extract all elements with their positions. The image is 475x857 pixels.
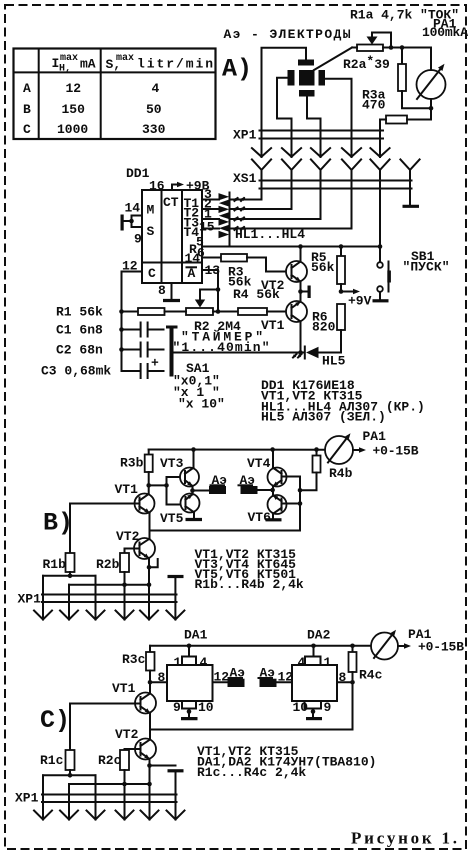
node: VT3/VT5 emitter junction bbox=[190, 488, 195, 493]
connector XP1 strip (B) bbox=[42, 594, 177, 596]
wire: base drive vertical and return line bbox=[150, 477, 301, 531]
svg-text:VT2: VT2 bbox=[261, 278, 285, 293]
transistor VT4 (mirrored) bbox=[268, 450, 301, 491]
svg-text:R2b: R2b bbox=[96, 557, 120, 572]
svg-text:VT1: VT1 bbox=[112, 681, 136, 696]
svg-text:max: max bbox=[60, 53, 78, 64]
svg-text:VT4: VT4 bbox=[247, 456, 271, 471]
svg-text:Аэ - ЭЛЕКТРОДЫ: Аэ - ЭЛЕКТРОДЫ bbox=[224, 27, 351, 42]
node: meter bottom junction bbox=[429, 106, 434, 111]
node: base tie junction bbox=[164, 483, 169, 488]
transistor VT1 (section A) bbox=[286, 292, 307, 353]
wire: electrode right plate to XP1 pin4 column bbox=[325, 79, 352, 157]
svg-text:+: + bbox=[151, 356, 159, 371]
svg-text:mA: mA bbox=[80, 57, 96, 72]
wire: M and S inputs tied to contact bar bbox=[132, 216, 143, 228]
svg-text:VT6: VT6 bbox=[248, 510, 272, 525]
svg-text:max: max bbox=[116, 53, 134, 64]
transistor VT2 (section A) bbox=[286, 247, 307, 292]
ground bar under SB1 bbox=[373, 299, 389, 302]
node: VT4 collector on rail bbox=[270, 447, 275, 452]
IC DA2 К174УН7 body bbox=[292, 665, 337, 701]
wire: R3b node to VT3/VT5 base tie bbox=[149, 484, 167, 486]
wire: pin row A (C section) bbox=[43, 774, 96, 776]
connector XP1 strip (two lines) bbox=[260, 130, 384, 132]
svg-text:А): А) bbox=[222, 55, 252, 84]
svg-text:C3 0,68mk: C3 0,68mk bbox=[41, 364, 111, 379]
svg-text:VT2: VT2 bbox=[115, 727, 139, 742]
node: R3c / DA1 pin8 / VT1c junction bbox=[148, 680, 153, 685]
electrode Аэ (C right) bbox=[259, 666, 277, 688]
resistor R1c bbox=[66, 750, 75, 775]
svg-text:1: 1 bbox=[324, 655, 332, 670]
svg-text:R2c: R2c bbox=[98, 753, 122, 768]
DA2 pins 10,9 with ground bbox=[293, 700, 332, 719]
svg-text:14: 14 bbox=[125, 201, 141, 216]
node: emitter column junction bbox=[147, 582, 152, 587]
svg-text:M: M bbox=[147, 203, 155, 218]
XS1 socket forks bbox=[252, 159, 420, 170]
wire: electrode top bar to XP1 pin1 column bbox=[262, 48, 307, 157]
wire: emitter down to pin row B bbox=[148, 567, 150, 584]
svg-text:4: 4 bbox=[298, 655, 306, 670]
node: VT4 base / R4b junction bbox=[298, 488, 303, 493]
svg-text:150: 150 bbox=[62, 102, 86, 117]
svg-text:4: 4 bbox=[152, 81, 160, 96]
wire: electrode to R1a wiper end (diagonal) bbox=[314, 48, 352, 71]
meter PA1 (section A) bbox=[417, 48, 447, 109]
resistor R1b bbox=[66, 553, 75, 576]
meter PA1 (section C) bbox=[371, 628, 411, 659]
svg-text:R1c...R4c 2,4k: R1c...R4c 2,4k bbox=[197, 765, 306, 780]
node: C1 junction bbox=[119, 327, 124, 332]
svg-text:DA1: DA1 bbox=[184, 628, 208, 643]
resistor R4 56k bbox=[238, 308, 292, 315]
potentiometer R1a bbox=[352, 33, 431, 52]
wire: electrode left plate to XP1 pin2 column bbox=[277, 78, 292, 157]
wire: electrode bottom bar to XP1 pin3 column bbox=[307, 97, 321, 158]
svg-text:VT2: VT2 bbox=[116, 529, 140, 544]
wire: VT2c base to R2c bbox=[125, 749, 141, 750]
node: VT2 emitter / VT1 junction bbox=[298, 289, 303, 294]
LED light arrows HL1..HL4 bbox=[235, 198, 245, 230]
resistor R3b bbox=[145, 450, 153, 486]
svg-text:+9V: +9V bbox=[348, 294, 372, 309]
wire: pin 5 line bbox=[202, 246, 380, 248]
wire: pin row A (R1b to pins 1,3) bbox=[43, 575, 96, 577]
node: emitter column junction (C) bbox=[147, 782, 152, 787]
XP1 (C) pin arrowheads bbox=[34, 811, 185, 820]
node: R2 right lead junction bbox=[216, 309, 221, 314]
contact bar at pins 14/9 bbox=[121, 215, 124, 231]
node: VT2 collector on pin5 line bbox=[298, 244, 303, 249]
resistor R1 56k bbox=[122, 308, 187, 315]
resistor R4b bbox=[300, 450, 321, 491]
wire: socket4 stem to HL row4 bbox=[230, 170, 352, 229]
svg-text:Рисунок 1.: Рисунок 1. bbox=[351, 829, 457, 848]
DA1 pin 8 bbox=[150, 670, 167, 685]
svg-text:4: 4 bbox=[200, 655, 208, 670]
node: +9V tap junction bbox=[339, 289, 344, 294]
transistor VT3 bbox=[180, 450, 199, 491]
IC DD1 К176ИЕ18 body bbox=[142, 190, 202, 283]
resistor R3a 470 bbox=[398, 48, 431, 109]
svg-text:CT: CT bbox=[163, 195, 179, 210]
svg-text:VT1: VT1 bbox=[261, 318, 285, 333]
table: load classes A/B/C bbox=[14, 49, 216, 140]
wire: emitter node to ground stem bbox=[150, 765, 176, 767]
DA2 pin 12 input bbox=[277, 670, 294, 685]
connector XS1 strip (two lines) bbox=[260, 180, 412, 182]
push button SB1 "ПУСК" bbox=[377, 247, 391, 300]
svg-text:470: 470 bbox=[362, 98, 386, 113]
wire: socket2 stem to HL row2 bbox=[230, 170, 292, 209]
transistor VT1 (section C) bbox=[135, 693, 156, 743]
electrode Аэ (C left) bbox=[228, 666, 246, 688]
resistor R6 820 bbox=[319, 304, 346, 353]
pin stubs T1..T4 to LEDs bbox=[202, 200, 219, 229]
node: C2 junction bbox=[119, 347, 124, 352]
svg-text:1: 1 bbox=[174, 655, 182, 670]
capacitor C1 6n8 bbox=[122, 323, 164, 337]
electrode Аэ (B right) bbox=[239, 473, 258, 494]
wire: socket5 stem down to SB1 bbox=[379, 170, 381, 247]
transistor VT6 (mirrored) bbox=[268, 490, 301, 518]
svg-text:B: B bbox=[23, 102, 31, 117]
wire: VT3/VT5 base tie vertical bbox=[167, 477, 186, 505]
transistor VT2 (section C) bbox=[135, 739, 156, 766]
XP1 plug pin arrowheads bbox=[252, 148, 390, 157]
node: VT1 emitter on timer line bbox=[298, 350, 303, 355]
wire: VT1c/VT2c node return line to R4c bbox=[150, 682, 353, 729]
node: VT2b emitter junction bbox=[147, 565, 152, 570]
svg-text:VT1: VT1 bbox=[115, 482, 139, 497]
node: R3a top junction bbox=[400, 45, 405, 50]
LED HL5 bbox=[305, 347, 341, 359]
potentiometer R2 2М4 bbox=[186, 290, 238, 316]
resistor R2a bbox=[380, 108, 431, 157]
DA1 supply pins 1,4 bbox=[174, 646, 208, 670]
svg-text:9: 9 bbox=[173, 700, 181, 715]
wire: emitter stub bbox=[149, 559, 158, 567]
ground bar (B pin 6) bbox=[168, 575, 184, 578]
wire: pin 13 down to R2 right end bbox=[202, 270, 218, 312]
svg-text:S: S bbox=[147, 224, 155, 239]
svg-text:XS1: XS1 bbox=[233, 171, 257, 186]
svg-text:HL5: HL5 bbox=[322, 354, 346, 369]
DA2 pin 8 bbox=[337, 670, 353, 685]
svg-text:DD1: DD1 bbox=[126, 166, 150, 181]
svg-text:8: 8 bbox=[158, 283, 166, 298]
svg-text:100mkA: 100mkA bbox=[422, 25, 468, 40]
node: R5 top on pin5 line bbox=[339, 244, 344, 249]
capacitor C3 0,68mk (polarized) bbox=[122, 356, 164, 379]
svg-text:C: C bbox=[23, 122, 31, 137]
resistor R5 56k bbox=[337, 247, 345, 292]
svg-text:HL5 АЛ307 (ЗЕЛ.): HL5 АЛ307 (ЗЕЛ.) bbox=[261, 410, 386, 425]
IC DA1 К174УН7 body bbox=[167, 665, 213, 701]
ground bar under VT5 bbox=[186, 518, 203, 521]
node: R2c bottom junction bbox=[122, 782, 127, 787]
resistor R2c bbox=[120, 750, 129, 784]
pin 16 +9В supply arrow bbox=[172, 182, 184, 190]
capacitor C2 68n bbox=[122, 343, 164, 357]
electrode transducer Аэ (section A) bbox=[288, 60, 326, 97]
transistor VT1 (section B) bbox=[135, 485, 155, 542]
svg-text:VT5: VT5 bbox=[160, 511, 184, 526]
svg-text:1000: 1000 bbox=[57, 122, 88, 137]
node: R4c top on rail bbox=[350, 644, 355, 649]
wire: socket1 stem to HL row1 bbox=[230, 170, 262, 200]
node: VT3 collector on rail bbox=[191, 447, 196, 452]
wire: VT1b base to R1b bbox=[70, 504, 140, 554]
svg-text:A: A bbox=[23, 81, 31, 96]
svg-text:330: 330 bbox=[142, 122, 166, 137]
resistor R3 56k bbox=[221, 254, 292, 272]
svg-text:DA2: DA2 bbox=[307, 628, 331, 643]
wire: section B supply rail bbox=[149, 449, 326, 451]
wire: emitter down to pin row B (C) bbox=[149, 766, 151, 785]
node: R2b bottom junction bbox=[122, 582, 127, 587]
svg-text:C1 6n8: C1 6n8 bbox=[56, 323, 103, 338]
node: R1c bottom junction bbox=[68, 773, 73, 778]
svg-text:H,: H, bbox=[59, 64, 71, 75]
pin 8 stub with end bar bbox=[163, 283, 180, 301]
wire: pin 12 to timing network bbox=[122, 272, 143, 372]
XP1 (B) pin stems bbox=[43, 576, 175, 620]
ground bar (C pin 6) bbox=[168, 769, 184, 772]
wire: VT2b base to R2b bbox=[125, 549, 140, 554]
wire: section C supply rail bbox=[150, 645, 371, 647]
node: R4c / DA2 pin8 junction bbox=[350, 680, 355, 685]
svg-text:R1b...R4b 2,4k: R1b...R4b 2,4k bbox=[195, 577, 304, 592]
DA1 pins 9,10 with ground bbox=[173, 700, 214, 719]
svg-text:56k: 56k bbox=[311, 260, 335, 275]
svg-text:XP1: XP1 bbox=[18, 592, 42, 607]
svg-text:XP1: XP1 bbox=[233, 128, 257, 143]
wire: VT1c base to R1c bbox=[70, 704, 141, 751]
node: DA2 supply tap on rail bbox=[311, 644, 316, 649]
ground bar under VT6 bbox=[266, 518, 282, 521]
electrode Аэ (B left) bbox=[209, 473, 227, 494]
node: R1a right end junction bbox=[389, 45, 394, 50]
node: VT6 base junction bbox=[298, 501, 303, 506]
svg-text:R1c: R1c bbox=[40, 753, 64, 768]
svg-text:R3b: R3b bbox=[120, 456, 144, 471]
node: DA1 supply tap on rail bbox=[187, 644, 192, 649]
svg-text:10: 10 bbox=[293, 700, 309, 715]
svg-text:"х 10": "х 10" bbox=[178, 397, 225, 412]
resistor R2b bbox=[120, 553, 129, 585]
svg-text:R1b: R1b bbox=[43, 557, 67, 572]
svg-text:820: 820 bbox=[312, 320, 336, 335]
contact bar right of VT1/VT2 node bbox=[301, 286, 311, 299]
switch SA1 common bar bbox=[166, 326, 178, 377]
svg-text:R3c: R3c bbox=[122, 652, 146, 667]
svg-text:"ПУСК": "ПУСК" bbox=[403, 260, 450, 275]
svg-text:VT3: VT3 bbox=[160, 456, 184, 471]
svg-text:9: 9 bbox=[324, 700, 332, 715]
svg-text:9: 9 bbox=[134, 232, 142, 247]
node: R2 wiper tie junction bbox=[216, 287, 221, 292]
svg-text:50: 50 bbox=[146, 102, 162, 117]
wire: socket6 stem to ground bbox=[409, 170, 411, 205]
svg-text:C: C bbox=[148, 266, 156, 281]
svg-text:С): С) bbox=[40, 706, 70, 735]
wire: pin row B (C section) bbox=[69, 783, 150, 785]
resistor R3c bbox=[146, 646, 155, 693]
node: VT1b collector / R3b junction bbox=[146, 483, 151, 488]
wire: timer output line to HL5 / R6 bbox=[174, 352, 305, 354]
resistor R4c bbox=[349, 646, 357, 683]
svg-text:R4b: R4b bbox=[329, 466, 353, 481]
node: VT4/VT6 emitter junction bbox=[270, 488, 275, 493]
node: R1b bottom junction bbox=[68, 574, 73, 579]
transistor VT5 bbox=[181, 491, 200, 518]
XP1 (B) pin arrowheads bbox=[34, 611, 184, 620]
svg-text:HL1...HL4: HL1...HL4 bbox=[235, 227, 305, 242]
node: R4b top on rail bbox=[314, 447, 319, 452]
LEDs HL1...HL4 (anti-parallel column) bbox=[219, 193, 230, 247]
svg-text:+0-15В: +0-15В bbox=[418, 640, 464, 655]
svg-text:10: 10 bbox=[198, 700, 214, 715]
DA2 supply pins 4,1 bbox=[298, 646, 332, 670]
connector XP1 strip (C) bbox=[42, 794, 177, 796]
svg-text:R4c: R4c bbox=[359, 668, 383, 683]
svg-text:12: 12 bbox=[66, 81, 82, 96]
wire: pin 6 to R3 bbox=[202, 257, 221, 259]
node: SB1 top on pin5 line bbox=[378, 244, 383, 249]
wire: socket3 stem to HL row3 bbox=[230, 170, 321, 219]
svg-text:PA1: PA1 bbox=[363, 429, 387, 444]
ground bar (XS1 pin 6) bbox=[403, 205, 420, 208]
wire: emitter node to left electrode bbox=[193, 490, 210, 492]
node: pin14/9 junction bbox=[129, 219, 134, 224]
svg-text:litr/min: litr/min bbox=[137, 57, 213, 72]
svg-text:15: 15 bbox=[199, 220, 215, 235]
svg-text:XP1: XP1 bbox=[15, 791, 39, 806]
LED HL5 light arrows bbox=[293, 354, 302, 358]
svg-text:R1 56k: R1 56k bbox=[56, 305, 103, 320]
DA1 pin 12 output bbox=[213, 670, 230, 685]
svg-text:16: 16 bbox=[149, 179, 165, 194]
meter PA1 (section B) bbox=[325, 432, 366, 464]
svg-text:B): B) bbox=[43, 509, 73, 538]
node: R1 left junction bbox=[119, 309, 124, 314]
wire: right electrode to VT4/VT6 emitter node bbox=[258, 489, 273, 491]
+9V supply arrow bbox=[341, 289, 360, 295]
svg-text:C2 68n: C2 68n bbox=[56, 343, 103, 358]
svg-text:+0-15В: +0-15В bbox=[373, 444, 419, 459]
wire: pin row B (pins 2,4,5) bbox=[69, 584, 149, 586]
XP1 (C) pin stems bbox=[43, 771, 176, 820]
node: VT2c emitter junction bbox=[147, 763, 152, 768]
transistor VT2 (section B) bbox=[134, 538, 155, 567]
